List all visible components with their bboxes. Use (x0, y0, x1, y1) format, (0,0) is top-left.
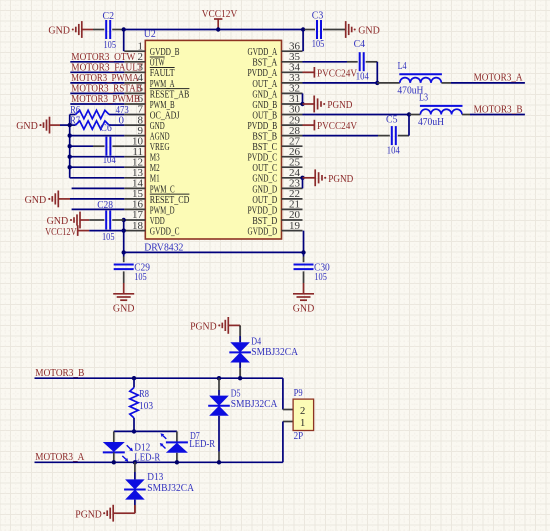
svg-text:SMBJ32CA: SMBJ32CA (251, 346, 298, 358)
svg-text:105: 105 (314, 271, 327, 283)
svg-text:GND: GND (150, 121, 165, 132)
svg-text:OUT_C: OUT_C (252, 163, 277, 174)
svg-text:GND: GND (358, 25, 380, 37)
svg-text:PVDD_A: PVDD_A (248, 68, 278, 79)
svg-text:GND_D: GND_D (252, 184, 277, 195)
svg-text:GND: GND (25, 194, 47, 206)
svg-text:19: 19 (289, 220, 301, 232)
svg-text:PGND: PGND (328, 173, 353, 185)
svg-text:BST_C: BST_C (252, 142, 277, 153)
svg-text:L3: L3 (419, 92, 428, 104)
svg-text:18: 18 (132, 220, 144, 232)
svg-text:LED-R: LED-R (189, 438, 216, 450)
svg-text:M1: M1 (150, 174, 160, 185)
svg-text:FAULT: FAULT (150, 68, 175, 79)
svg-text:OUT_B: OUT_B (252, 110, 277, 121)
svg-text:P9: P9 (294, 387, 303, 399)
svg-text:GVDD_A: GVDD_A (248, 47, 278, 58)
svg-text:104: 104 (103, 154, 116, 166)
svg-text:PGND: PGND (75, 508, 102, 520)
svg-text:GVDD_B: GVDD_B (150, 47, 180, 58)
svg-text:BST_A: BST_A (252, 58, 277, 69)
svg-text:MOTOR3_A: MOTOR3_A (474, 72, 523, 84)
svg-text:L4: L4 (398, 60, 407, 72)
svg-text:M2: M2 (150, 163, 160, 174)
svg-text:PVCC24V: PVCC24V (317, 68, 357, 80)
svg-text:105: 105 (312, 38, 325, 50)
svg-text:470uH: 470uH (418, 116, 444, 128)
svg-text:VCC12V: VCC12V (202, 8, 238, 20)
svg-text:MOTOR3_PWMB: MOTOR3_PWMB (71, 93, 140, 105)
svg-text:0: 0 (119, 115, 125, 127)
svg-text:PWM_D: PWM_D (150, 205, 175, 216)
svg-text:1: 1 (300, 418, 305, 429)
svg-text:105: 105 (102, 231, 115, 243)
svg-text:MOTOR3_A: MOTOR3_A (35, 451, 84, 463)
svg-text:C6: C6 (100, 122, 112, 134)
svg-text:105: 105 (104, 39, 117, 51)
svg-text:GVDD_D: GVDD_D (248, 227, 278, 238)
svg-text:AGND: AGND (150, 132, 170, 143)
svg-text:GND: GND (48, 25, 70, 37)
svg-text:PWM_B: PWM_B (150, 100, 175, 111)
svg-text:PVCC24V: PVCC24V (317, 120, 357, 132)
svg-text:GND: GND (16, 120, 38, 132)
svg-text:MOTOR3_B: MOTOR3_B (474, 103, 523, 115)
svg-text:105: 105 (134, 271, 147, 283)
svg-text:VCC12V: VCC12V (45, 226, 77, 238)
svg-text:104: 104 (356, 70, 369, 82)
svg-text:2: 2 (300, 406, 305, 417)
svg-text:PVDD_C: PVDD_C (248, 153, 278, 164)
svg-text:2P: 2P (294, 430, 304, 442)
svg-text:MOTOR3_B: MOTOR3_B (35, 367, 84, 379)
svg-text:GND_C: GND_C (252, 174, 277, 185)
svg-text:C3: C3 (312, 10, 324, 22)
svg-text:GND_B: GND_B (252, 100, 277, 111)
svg-text:BST_D: BST_D (252, 216, 277, 227)
svg-text:PGND: PGND (327, 99, 352, 111)
svg-text:GVDD_C: GVDD_C (150, 227, 180, 238)
svg-text:OC_ADJ: OC_ADJ (150, 110, 180, 121)
svg-text:R8: R8 (139, 388, 149, 400)
svg-text:OUT_D: OUT_D (252, 195, 277, 206)
svg-text:BST_B: BST_B (252, 132, 277, 143)
svg-text:SMBJ32CA: SMBJ32CA (147, 482, 194, 494)
svg-text:C2: C2 (103, 10, 115, 22)
svg-text:103: 103 (139, 400, 153, 412)
svg-text:PVDD_D: PVDD_D (248, 205, 278, 216)
svg-text:M3: M3 (150, 153, 160, 164)
svg-text:PGND: PGND (190, 321, 217, 333)
svg-text:RESET_AB: RESET_AB (150, 89, 190, 100)
svg-text:VREG: VREG (150, 142, 170, 153)
svg-text:C28: C28 (97, 199, 113, 211)
svg-text:C5: C5 (386, 113, 398, 125)
svg-text:GND_A: GND_A (252, 89, 277, 100)
svg-text:104: 104 (387, 145, 400, 157)
svg-text:OUT_A: OUT_A (252, 79, 277, 90)
svg-text:VDD: VDD (150, 216, 165, 227)
svg-text:RESET_CD: RESET_CD (150, 195, 190, 206)
svg-text:GND: GND (113, 302, 135, 314)
svg-text:GND: GND (293, 302, 315, 314)
svg-text:C4: C4 (354, 38, 366, 50)
svg-text:PVDD_B: PVDD_B (248, 121, 278, 132)
svg-text:SMBJ32CA: SMBJ32CA (231, 398, 278, 410)
